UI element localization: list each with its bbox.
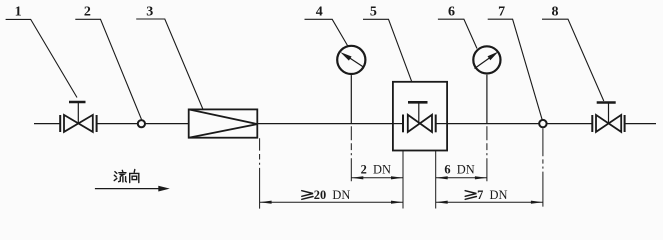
svg-text:8: 8	[552, 5, 559, 20]
svg-text:7: 7	[498, 5, 505, 20]
svg-text:20 DN: 20 DN	[314, 188, 351, 202]
svg-text:1: 1	[15, 5, 22, 20]
svg-text:2 DN: 2 DN	[361, 163, 391, 177]
svg-text:6: 6	[448, 5, 455, 20]
svg-text:2: 2	[84, 5, 91, 20]
svg-text:3: 3	[146, 5, 153, 20]
svg-text:7 DN: 7 DN	[477, 188, 507, 202]
svg-text:4: 4	[316, 5, 323, 20]
svg-text:6 DN: 6 DN	[444, 163, 474, 177]
svg-text:5: 5	[370, 5, 377, 20]
